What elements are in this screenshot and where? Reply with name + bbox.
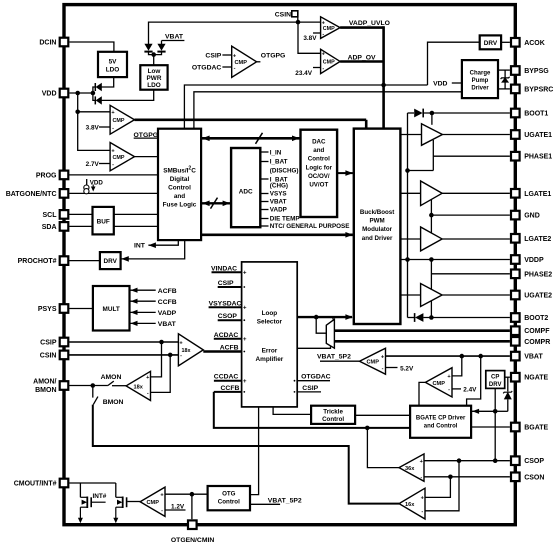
svg-text:BGATE: BGATE bbox=[524, 425, 548, 432]
svg-text:VINDAC: VINDAC bbox=[211, 265, 237, 272]
svg-text:OTGEN/CMIN: OTGEN/CMIN bbox=[171, 537, 215, 544]
svg-text:Control: Control bbox=[308, 156, 330, 163]
svg-text:CMP: CMP bbox=[113, 118, 125, 124]
svg-text:BGATE CP Driver: BGATE CP Driver bbox=[416, 416, 466, 422]
svg-text:VBAT_5P2: VBAT_5P2 bbox=[268, 497, 302, 504]
svg-text:DIE TEMP: DIE TEMP bbox=[270, 216, 300, 223]
svg-text:OC/OV/: OC/OV/ bbox=[308, 173, 330, 180]
svg-text:COMPR: COMPR bbox=[524, 339, 550, 346]
svg-text:CP: CP bbox=[491, 374, 499, 380]
svg-text:-: - bbox=[161, 508, 163, 514]
svg-text:CMP: CMP bbox=[323, 60, 335, 66]
svg-text:Modulator: Modulator bbox=[362, 226, 392, 233]
svg-text:Control: Control bbox=[168, 185, 191, 192]
svg-text:VADP: VADP bbox=[270, 207, 287, 214]
svg-text:-: - bbox=[112, 162, 114, 168]
svg-text:5V: 5V bbox=[109, 59, 118, 66]
svg-text:3.8V: 3.8V bbox=[303, 35, 317, 42]
svg-text:Driver: Driver bbox=[471, 86, 489, 92]
svg-text:BOOT2: BOOT2 bbox=[524, 315, 548, 322]
svg-text:NGATE: NGATE bbox=[524, 375, 548, 382]
svg-text:INT: INT bbox=[134, 243, 146, 250]
svg-text:LDO: LDO bbox=[147, 82, 161, 89]
svg-text:OTG: OTG bbox=[222, 491, 236, 498]
svg-text:UV/OT: UV/OT bbox=[309, 182, 328, 189]
svg-text:Logic for: Logic for bbox=[306, 164, 333, 171]
svg-text:NTC/ GENERAL PURPOSE: NTC/ GENERAL PURPOSE bbox=[270, 223, 350, 230]
svg-text:MULT: MULT bbox=[103, 306, 120, 313]
svg-text:-: - bbox=[234, 65, 236, 71]
svg-text:and Driver: and Driver bbox=[362, 235, 393, 242]
svg-text:ACDAC: ACDAC bbox=[214, 332, 239, 339]
svg-text:CCDAC: CCDAC bbox=[214, 374, 239, 381]
svg-text:PWR: PWR bbox=[147, 75, 162, 82]
svg-text:Charge: Charge bbox=[470, 71, 491, 77]
svg-text:PROG: PROG bbox=[36, 172, 57, 179]
svg-text:CCFB: CCFB bbox=[158, 299, 177, 306]
svg-text:OTGDAC: OTGDAC bbox=[301, 374, 331, 381]
svg-text:BMON: BMON bbox=[35, 387, 56, 394]
svg-text:and: and bbox=[313, 147, 324, 154]
svg-text:2.7V: 2.7V bbox=[86, 161, 100, 168]
svg-text:UGATE2: UGATE2 bbox=[524, 293, 552, 300]
svg-text:CCFB: CCFB bbox=[221, 385, 240, 392]
svg-text:LDO: LDO bbox=[106, 67, 120, 74]
svg-text:18x: 18x bbox=[182, 348, 191, 354]
svg-text:23.4V: 23.4V bbox=[295, 70, 312, 77]
svg-text:LGATE1: LGATE1 bbox=[524, 191, 551, 198]
svg-text:Trickle: Trickle bbox=[323, 409, 343, 416]
svg-text:CSIN: CSIN bbox=[275, 12, 291, 19]
svg-text:-: - bbox=[448, 387, 450, 393]
svg-text:LGATE2: LGATE2 bbox=[524, 236, 551, 243]
svg-text:CSIP: CSIP bbox=[40, 340, 57, 347]
svg-text:-: - bbox=[112, 125, 114, 131]
svg-text:ACFB: ACFB bbox=[158, 288, 177, 295]
svg-text:Buck/Boost: Buck/Boost bbox=[360, 209, 394, 216]
svg-text:CMP: CMP bbox=[433, 381, 446, 387]
svg-text:BYPSG: BYPSG bbox=[524, 68, 549, 75]
svg-text:CMP: CMP bbox=[113, 155, 125, 161]
svg-text:2.4V: 2.4V bbox=[463, 387, 477, 394]
svg-text:BUF: BUF bbox=[97, 219, 110, 226]
svg-text:DRV: DRV bbox=[484, 40, 498, 47]
svg-text:Loop: Loop bbox=[262, 310, 278, 317]
svg-text:-: - bbox=[421, 509, 423, 515]
svg-text:DRV: DRV bbox=[104, 258, 118, 265]
svg-text:+: + bbox=[243, 337, 247, 343]
svg-text:VADP: VADP bbox=[158, 310, 177, 317]
svg-text:PROCHOT#: PROCHOT# bbox=[18, 258, 57, 265]
svg-text:CSIP: CSIP bbox=[205, 53, 221, 60]
svg-text:SCL: SCL bbox=[43, 212, 58, 219]
svg-text:I_BAT: I_BAT bbox=[270, 159, 288, 166]
svg-text:and Control: and Control bbox=[424, 424, 458, 430]
svg-text:PHASE1: PHASE1 bbox=[524, 154, 552, 161]
svg-text:1.2V: 1.2V bbox=[171, 503, 185, 510]
svg-text:3.8V: 3.8V bbox=[86, 124, 100, 131]
svg-text:-: - bbox=[147, 391, 149, 397]
svg-text:-: - bbox=[420, 475, 422, 481]
svg-text:VBAT: VBAT bbox=[524, 354, 543, 361]
svg-text:GND: GND bbox=[524, 213, 540, 220]
svg-text:VSYS: VSYS bbox=[270, 191, 287, 198]
svg-text:CSOP: CSOP bbox=[218, 313, 238, 320]
svg-text:Error: Error bbox=[262, 348, 278, 355]
svg-text:BATGONE/NTC: BATGONE/NTC bbox=[6, 191, 57, 198]
svg-text:ADC: ADC bbox=[239, 189, 253, 196]
svg-text:Control: Control bbox=[322, 416, 344, 423]
svg-text:PWM: PWM bbox=[370, 218, 385, 225]
svg-text:CMP: CMP bbox=[147, 500, 160, 506]
svg-text:Control: Control bbox=[218, 499, 240, 506]
svg-text:VDDP: VDDP bbox=[524, 257, 544, 264]
svg-text:Amplifier: Amplifier bbox=[256, 356, 284, 363]
svg-text:36x: 36x bbox=[405, 466, 415, 472]
svg-text:VBAT_5P2: VBAT_5P2 bbox=[317, 354, 351, 361]
svg-text:UGATE1: UGATE1 bbox=[524, 132, 552, 139]
svg-text:-: - bbox=[322, 66, 324, 72]
svg-text:5.2V: 5.2V bbox=[400, 365, 414, 372]
svg-text:PHASE2: PHASE2 bbox=[524, 271, 552, 278]
svg-text:VDD: VDD bbox=[42, 91, 57, 98]
svg-text:CSIP: CSIP bbox=[302, 385, 318, 392]
svg-text:VSYSDAC: VSYSDAC bbox=[209, 300, 242, 307]
svg-text:INT#: INT# bbox=[93, 493, 107, 500]
svg-text:CSOP: CSOP bbox=[524, 458, 544, 465]
svg-text:BOOT1: BOOT1 bbox=[524, 111, 548, 118]
svg-text:VBAT: VBAT bbox=[270, 199, 287, 206]
svg-text:I_IN: I_IN bbox=[270, 149, 282, 156]
svg-text:+: + bbox=[243, 306, 247, 312]
svg-text:CSIN: CSIN bbox=[40, 352, 57, 359]
svg-text:Fuse Logic: Fuse Logic bbox=[163, 202, 197, 209]
svg-text:16x: 16x bbox=[405, 502, 415, 508]
svg-text:CSIP: CSIP bbox=[218, 280, 234, 287]
svg-text:DRV: DRV bbox=[489, 382, 502, 388]
svg-text:VDD: VDD bbox=[433, 80, 447, 87]
svg-text:18x: 18x bbox=[134, 384, 144, 390]
svg-text:ACOK: ACOK bbox=[524, 40, 545, 47]
svg-text:SMBus/I2C: SMBus/I2C bbox=[163, 166, 196, 175]
svg-text:CMP: CMP bbox=[323, 26, 335, 32]
svg-text:AMON/: AMON/ bbox=[33, 379, 56, 386]
svg-text:BMON: BMON bbox=[103, 399, 124, 406]
svg-text:AMON: AMON bbox=[101, 374, 122, 381]
svg-text:CMP: CMP bbox=[367, 360, 380, 366]
svg-text:CMP: CMP bbox=[235, 60, 248, 66]
svg-text:+: + bbox=[243, 379, 247, 385]
svg-text:PSYS: PSYS bbox=[38, 306, 57, 313]
svg-text:VBAT: VBAT bbox=[158, 321, 177, 328]
svg-text:-: - bbox=[180, 353, 182, 359]
svg-text:and: and bbox=[174, 193, 185, 200]
svg-text:ADP_OV: ADP_OV bbox=[348, 55, 376, 62]
svg-text:ACFB: ACFB bbox=[220, 345, 239, 352]
svg-text:DAC: DAC bbox=[312, 139, 326, 146]
svg-text:(DISCHG): (DISCHG) bbox=[270, 168, 299, 175]
svg-text:+: + bbox=[243, 271, 247, 277]
svg-text:VBAT: VBAT bbox=[165, 34, 184, 41]
svg-text:-: - bbox=[322, 31, 324, 37]
svg-text:Digital: Digital bbox=[170, 176, 190, 183]
svg-text:DCIN: DCIN bbox=[39, 40, 56, 47]
svg-text:OTGPG: OTGPG bbox=[261, 53, 286, 60]
svg-text:OTGPG: OTGPG bbox=[134, 132, 159, 139]
svg-text:Selector: Selector bbox=[257, 319, 283, 326]
svg-text:-: - bbox=[382, 366, 384, 372]
svg-text:COMPF: COMPF bbox=[524, 328, 550, 335]
svg-text:CSON: CSON bbox=[524, 474, 544, 481]
svg-text:OTGDAC: OTGDAC bbox=[192, 65, 222, 72]
svg-text:VDD: VDD bbox=[90, 179, 104, 186]
svg-text:SDA: SDA bbox=[42, 224, 57, 231]
svg-text:VADP_UVLO: VADP_UVLO bbox=[349, 20, 390, 27]
svg-text:BYPSRC: BYPSRC bbox=[524, 86, 553, 93]
svg-text:(CHG): (CHG) bbox=[270, 182, 288, 189]
svg-text:Low: Low bbox=[148, 68, 161, 75]
svg-text:Pump: Pump bbox=[472, 78, 489, 84]
svg-text:CMOUT/INT#: CMOUT/INT# bbox=[14, 481, 57, 488]
